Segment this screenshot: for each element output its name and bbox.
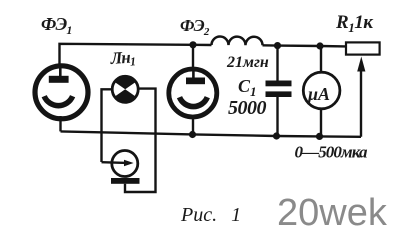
wire: rheostat wiper arrow to R1 xyxy=(357,57,365,137)
wire: node A to inductor xyxy=(193,44,212,47)
photocell FE2 xyxy=(169,69,217,117)
wire: bottom rail xyxy=(61,131,362,136)
adjustable device (circle with arrow) xyxy=(102,151,140,184)
lamp LN1 xyxy=(112,76,138,102)
svg-text:20wek: 20wek xyxy=(277,192,388,234)
wire: FE2 cathode lead xyxy=(192,115,194,135)
photocell FE1 xyxy=(35,66,88,119)
wire: node A to FE2 anode xyxy=(192,45,194,70)
svg-text:Рис.1: Рис.1 xyxy=(180,204,241,226)
svg-text:μА: μА xyxy=(307,84,330,104)
node C (junction dot top of meter) xyxy=(316,42,323,49)
wire: FE1 anode lead and top rail to node A xyxy=(60,44,194,68)
wire: FE1 cathode lead to bottom rail xyxy=(59,116,61,131)
wire: meter bottom lead xyxy=(320,109,322,136)
svg-text:C1: C1 xyxy=(238,76,257,99)
wire: inductor to node B xyxy=(263,44,278,47)
node A (junction dot top of FE2) xyxy=(189,41,196,48)
wire: lamp left lead down xyxy=(102,89,113,162)
wire: node B to node C xyxy=(278,44,321,47)
wire: node C to resistor R1 xyxy=(320,45,345,48)
inductor L1 21mH xyxy=(212,37,263,46)
svg-text:5000: 5000 xyxy=(228,97,267,119)
resistor R1 xyxy=(346,42,380,54)
node E (junction dot bottom of C1) xyxy=(273,132,280,139)
node B (junction dot top of C1) xyxy=(274,42,281,49)
svg-text:ФЭ1: ФЭ1 xyxy=(41,14,72,37)
node F (junction dot bottom of meter) xyxy=(316,133,323,140)
svg-text:ФЭ2: ФЭ2 xyxy=(180,16,210,38)
capacitor C1 xyxy=(266,81,292,98)
wire: lamp right lead down xyxy=(125,89,156,192)
svg-text:Лн1: Лн1 xyxy=(109,47,136,70)
microammeter U1 xyxy=(303,72,340,109)
svg-text:0—500мка: 0—500мка xyxy=(295,143,369,162)
svg-text:21мгн: 21мгн xyxy=(226,54,269,71)
node D (junction dot bottom of FE2) xyxy=(189,131,196,138)
wire: C1 bottom lead xyxy=(276,97,278,136)
wire: C1 top lead xyxy=(276,46,278,81)
wire: meter top lead xyxy=(320,46,322,72)
svg-text:R11к: R11к xyxy=(335,12,374,35)
